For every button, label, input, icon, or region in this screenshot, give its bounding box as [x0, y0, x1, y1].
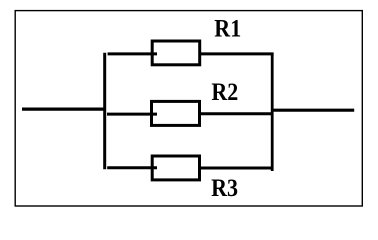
svg-text:R1: R1: [214, 15, 241, 43]
svg-text:R2: R2: [211, 79, 238, 107]
svg-text:R3: R3: [211, 175, 238, 203]
